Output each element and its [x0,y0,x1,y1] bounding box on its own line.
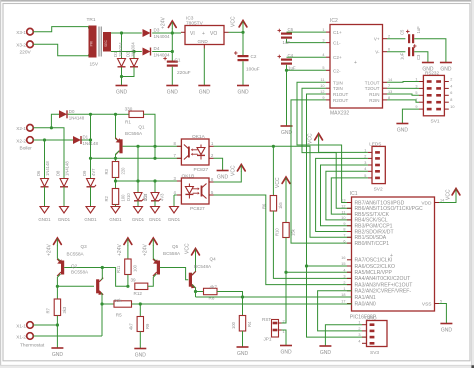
svg-text:1: 1 [322,28,324,32]
svg-text:D6: D6 [36,170,41,176]
svg-text:R10: R10 [274,228,279,236]
wire VSS to GND [439,304,446,324]
svg-text:3: 3 [322,39,324,43]
svg-text:SV1: SV1 [431,119,440,125]
svg-text:GND: GND [52,352,64,358]
svg-text:Q1: Q1 [138,125,145,130]
optocoupler OK1A PC827 [173,134,214,173]
wire SV2 pin2 to RB2 [316,158,368,231]
wire Q5 base to Q4 base [160,268,188,280]
svg-text:1: 1 [358,321,360,325]
ground under C5 [440,63,452,73]
svg-text:VSS: VSS [422,301,432,307]
svg-text:C1-: C1- [333,41,341,46]
svg-text:R5: R5 [116,313,122,318]
svg-text:1N4148: 1N4148 [45,161,50,176]
connector X3-1 [16,28,33,35]
svg-text:X2-1: X2-1 [16,126,26,131]
transistor Q1 BC556A [116,125,145,155]
junction D9 column top [89,113,92,116]
junction zener tap [89,157,92,160]
transistor Q5 BC558A [153,244,181,276]
svg-text:C2: C2 [251,54,257,59]
junction Q2 base node [56,285,59,288]
wire T1IN to RB7 [297,82,352,202]
supply VCC at SV2 [308,133,323,144]
junction on +24V rail (D1 tap) [120,31,123,34]
resistor R5 33k [102,298,132,318]
wire Q2 base [57,285,94,287]
label Thermostat [20,343,45,349]
ground under C3 [422,63,434,73]
ground under R7 [51,348,63,358]
svg-text:GND: GND [116,90,128,96]
capacitor C1 [163,52,190,86]
svg-text:4V7: 4V7 [91,168,96,176]
svg-text:8: 8 [343,228,345,232]
wire divider to OK1B pin3 [116,180,182,182]
svg-text:+: + [202,31,205,37]
svg-text:BC558A: BC558A [71,270,89,275]
wire R9 to GND [139,332,141,349]
svg-text:TR1: TR1 [87,17,96,23]
svg-text:Q5: Q5 [172,244,179,249]
svg-text:5: 5 [322,66,324,70]
wire X1-2 to Q2 emitter [33,335,102,337]
junction R6 tap [272,145,275,148]
ground under SV1 [396,124,408,134]
svg-text:9: 9 [415,105,417,109]
svg-text:GND: GND [320,350,332,356]
svg-text:C5: C5 [400,29,405,35]
supply +24V (top) [161,17,177,29]
svg-text:4V3: 4V3 [160,193,165,201]
wire X2-2 line [33,139,73,141]
wire SV3 pin2 to RA2 [318,291,362,331]
svg-text:2: 2 [343,281,345,285]
svg-text:220: 220 [120,167,125,175]
wire Q4 collector [192,256,196,275]
svg-text:GND1: GND1 [58,217,71,222]
junction R5 left [100,302,103,305]
svg-text:4: 4 [343,268,345,272]
svg-text:BC556A: BC556A [125,131,143,136]
ground GND1 under OK1B pin4 [168,195,181,222]
zener D9 4V7 [82,168,97,222]
supply VCC (top) [231,16,247,32]
svg-text:RB0/INT/CCP1: RB0/INT/CCP1 [355,241,390,247]
svg-text:4k7: 4k7 [129,323,134,330]
zener D11 4V3 [143,181,165,222]
svg-text:JP1: JP1 [264,337,272,342]
diode D3 [143,28,171,40]
svg-text:Q3: Q3 [81,244,88,249]
svg-text:LEDS: LEDS [369,141,381,146]
wire to R3 node [91,157,116,159]
wire X3-2 to TR1 primary bottom [33,44,88,55]
wire R6 to RA4 [273,211,351,278]
svg-text:GND: GND [280,350,292,356]
svg-text:1uF: 1uF [288,66,296,71]
svg-text:GND1: GND1 [168,217,181,222]
supply VCC at VDD [446,189,460,201]
wire to GND below caps [286,70,288,126]
svg-text:IC2: IC2 [330,18,338,24]
wire D3 to +24V node [152,32,181,34]
svg-text:3: 3 [358,333,360,337]
svg-text:3: 3 [364,161,366,165]
ground under OK1A [217,171,229,181]
resistor R1 [116,107,144,125]
wire IC3 VO to VCC [229,31,244,33]
wire D9 column [90,140,92,179]
wire OK1A pin2 to GND [214,158,223,170]
svg-text:1N4004: 1N4004 [154,34,171,39]
wire T1OUT to SV1 pin1 [387,81,419,84]
svg-text:1: 1 [415,77,417,81]
wire R1 to base column [144,114,156,146]
svg-text:8: 8 [388,96,390,100]
wire R2IN to SV1 pin7 [387,100,419,102]
connector SV1 RS232 [415,71,454,125]
svg-text:PC827: PC827 [190,206,205,212]
svg-text:5: 5 [364,174,366,178]
wire OK1B pin5 to RA3 [214,195,352,285]
junction Q2 collector tie [101,266,104,269]
svg-text:1N4004: 1N4004 [154,53,171,58]
supply +24V at Q3 [47,238,62,256]
wire opto pin7 line [116,157,182,159]
junction D9 mid [89,138,92,141]
wire Q3 emitter [57,245,60,261]
svg-text:R8: R8 [209,296,215,301]
svg-text:VCC: VCC [308,133,314,144]
svg-text:4: 4 [322,53,324,57]
svg-text:R2IN: R2IN [369,98,379,103]
junction opto cathode node [153,157,156,160]
wire +24V arrow stem [171,28,173,33]
svg-text:C1: C1 [175,58,181,63]
svg-text:2: 2 [358,327,360,331]
diode D1 (vertical) [113,33,125,67]
junction R4 top [241,295,244,298]
wire T2OUT to SV1 pin3 [387,87,419,89]
wire D0 output [68,113,116,115]
svg-text:VDD: VDD [421,200,432,206]
wire SV2 pin3 to RB3 [321,165,368,226]
svg-text:VI: VI [190,31,195,37]
wire diode returns to GND [122,67,135,85]
svg-text:MAX232: MAX232 [330,111,349,117]
svg-text:GND1: GND1 [84,217,97,222]
junction diode return [120,75,123,78]
diode D6 (clamp) [36,140,51,222]
svg-text:GND1: GND1 [149,217,162,222]
svg-text:+24V: +24V [161,17,167,29]
svg-text:+24V: +24V [143,244,149,256]
svg-text:SV2: SV2 [374,187,383,193]
svg-text:GND: GND [237,90,249,96]
connector X2-2 [16,137,33,144]
wire OK1B pin4 to GND1 [174,194,177,196]
wire R1IN to SV1 pin5 [387,94,419,95]
svg-text:4: 4 [358,339,360,343]
svg-text:D10: D10 [126,193,131,201]
svg-text:1k5: 1k5 [278,202,283,209]
label 220V [20,50,32,56]
svg-text:1N4148: 1N4148 [69,116,85,121]
svg-text:9: 9 [343,222,345,226]
svg-text:4: 4 [450,84,452,88]
diode D0 [59,109,85,121]
svg-text:10: 10 [320,84,324,88]
svg-text:V+: V+ [374,37,380,42]
junction X2-1/D0 [50,126,53,129]
svg-text:GND: GND [199,90,211,96]
svg-text:11: 11 [321,78,325,82]
svg-text:7: 7 [343,234,345,238]
svg-text:2: 2 [364,154,366,158]
wire VCC to SV2 pin1 [319,141,368,153]
ic IC2 MAX232 [320,18,392,117]
resistor R11 100 [116,245,137,275]
capacitor C6 1uF [278,27,327,45]
svg-text:10: 10 [341,216,345,220]
junction R8 tap [194,290,197,293]
wire bus1 to RA1 [196,296,352,298]
svg-text:+24V: +24V [117,244,123,256]
wire base col to opto LED return [154,146,156,158]
svg-text:6: 6 [388,48,390,52]
svg-text:RST: RST [262,317,271,322]
wire X2-1 line [33,128,64,179]
ground under bridge [116,86,128,96]
junction Q1 collector column [114,113,117,116]
svg-text:D8: D8 [56,170,61,176]
wire Q3 collector to R7 [57,274,60,299]
svg-text:VO: VO [210,31,217,37]
svg-text:IC3: IC3 [186,16,194,22]
svg-text:VCC: VCC [231,165,237,176]
svg-text:X3-2: X3-2 [16,43,26,48]
svg-text:8: 8 [450,98,452,102]
junction X1-1 [56,323,59,326]
svg-text:RS232: RS232 [425,71,439,76]
svg-text:C2-: C2- [333,68,341,73]
wire R11 to junction [127,275,129,287]
resistor R3 [104,158,126,177]
svg-text:2: 2 [388,35,390,39]
svg-text:BC548A: BC548A [194,264,212,269]
transistor Q4 BC548A [189,257,216,289]
svg-text:OK1B: OK1B [182,173,195,179]
wire SV2 pin4 to RB4 [326,171,368,220]
wire Q2 collector [101,268,102,281]
wire TR1 sec bottom to D4 [111,51,142,53]
svg-text:3: 3 [415,84,417,88]
svg-text:Q2: Q2 [71,263,78,268]
diode D8 (clamp) [56,161,71,222]
connector SV2 LEDS [364,141,385,192]
resistor R9 4k7 [129,304,150,332]
svg-text:1: 1 [364,148,366,152]
svg-text:GND: GND [198,39,209,44]
jumper JP1 RST [262,317,285,342]
svg-text:T1OUT: T1OUT [365,80,380,85]
supply +24V at R11 [117,238,132,256]
svg-text:GND: GND [440,67,452,73]
svg-text:IC1: IC1 [350,191,358,197]
svg-text:39: 39 [131,277,137,282]
svg-text:5: 5 [415,91,417,95]
junction MCLR [284,271,287,274]
capacitor C5 1uF [387,26,446,63]
wire Q4 emitter to bus [192,285,196,297]
voltage regulator IC3 7805TV [181,16,229,49]
svg-text:RA0/AN0: RA0/AN0 [355,301,376,307]
wire R12 to Q5 collector [148,274,157,286]
svg-text:R7: R7 [46,307,51,313]
svg-text:100: 100 [133,264,138,272]
junction X2-2/D6 [43,138,46,141]
svg-text:R3: R3 [104,168,109,174]
wire Q1 emitter [116,151,120,159]
wire Q2 emitter to X1-2 [101,293,102,336]
wire VDD to VCC [439,196,456,203]
svg-text:PRI: PRI [90,41,94,47]
svg-text:GND: GND [237,351,249,357]
svg-text:100uF: 100uF [246,67,260,73]
svg-text:D1: D1 [83,135,89,140]
svg-text:33k: 33k [114,298,122,303]
svg-text:11: 11 [342,210,346,214]
svg-text:R11: R11 [116,265,121,273]
zener D10 15V [126,146,148,222]
svg-text:7805TV: 7805TV [186,21,204,27]
svg-text:GND: GND [441,328,453,334]
svg-text:Boiler: Boiler [20,146,33,152]
wire D1b output up [82,114,91,140]
connector X2-1 [16,125,33,132]
supply VCC at R10 [275,177,290,188]
junction C1 tap [171,50,174,53]
svg-text:6: 6 [343,239,345,243]
junction R3 top [114,157,117,160]
svg-text:15: 15 [341,262,345,266]
svg-text:9: 9 [322,96,324,100]
ground GND1 under R2 [109,207,122,223]
ground under JP1 [280,346,292,356]
junction VCC node [241,31,244,34]
svg-text:X3-1: X3-1 [16,30,26,35]
resistor R12 39 [131,277,148,296]
junction C4 ground tap [285,69,288,72]
svg-text:220uF: 220uF [177,70,191,76]
wire T2IN to RB6 [302,88,352,208]
junction R11/R12 [126,285,129,288]
svg-text:D3: D3 [154,28,160,33]
svg-text:GND: GND [135,353,147,359]
svg-text:1uF: 1uF [283,40,291,45]
svg-text:D0: D0 [69,109,75,114]
svg-text:D9: D9 [82,170,87,176]
svg-text:RA7/OSC1/CLKI: RA7/OSC1/CLKI [355,258,393,264]
svg-text:13: 13 [388,90,392,94]
wire VCC to OK1B pin8 [214,172,242,183]
svg-text:13: 13 [341,199,345,203]
supply VCC at OK1B [231,165,246,177]
svg-text:GPIO: GPIO [365,316,377,321]
svg-text:SV3: SV3 [370,350,379,356]
connector X3-2 [16,41,33,48]
wire RA6 tap [307,265,352,267]
junction RA6 tap [305,264,308,267]
junction R9 top [139,302,142,305]
resistor R8 4k7 [196,285,218,301]
svg-text:1N4004: 1N4004 [130,42,135,57]
svg-text:VCC: VCC [446,189,452,200]
diode D4 [143,46,171,58]
svg-text:100: 100 [231,321,236,329]
supply VCC at Q4 [185,243,200,256]
svg-text:12: 12 [341,205,345,209]
junction Q1 base / D10 column [136,145,139,148]
svg-text:D4: D4 [154,46,160,51]
ground under C2 [237,86,249,96]
svg-text:C1+: C1+ [333,30,342,35]
svg-text:1: 1 [283,330,285,334]
ground under SV3 [319,346,331,356]
svg-text:+24V: +24V [47,244,53,256]
svg-text:6: 6 [450,91,452,95]
svg-text:C2+: C2+ [333,55,342,60]
connector SV3 GPIO [358,316,387,356]
wire R1OUT to SV3 pin3 [307,94,367,337]
capacitor C3 1uF [387,44,428,62]
ground under VSS [440,324,452,334]
ground under R9 [134,349,146,359]
svg-text:10: 10 [450,105,454,109]
transistor Q2 BC558A [71,263,103,295]
svg-text:X1-2: X1-2 [16,334,26,339]
svg-text:SEC: SEC [104,39,108,47]
wire R4 to GND [242,331,244,347]
ground under C1 [166,86,178,96]
wire IC3 GND to ground [203,49,205,86]
svg-text:C6: C6 [288,27,294,32]
resistor R10 15k [274,184,295,238]
svg-text:RA5/MCLR/VPP: RA5/MCLR/VPP [355,270,393,276]
svg-text:R1: R1 [125,120,131,125]
svg-text:R12: R12 [134,291,143,296]
svg-text:VCC: VCC [185,243,191,254]
svg-text:BC558A: BC558A [67,251,85,256]
svg-text:GND: GND [397,128,409,134]
wire X3-1 to TR1 primary top [33,27,88,32]
wire R8 to bus1 [217,292,243,298]
svg-text:330: 330 [125,107,133,112]
svg-text:BC558A: BC558A [163,251,181,256]
svg-text:GND1: GND1 [132,217,145,222]
wire Q1 base line [123,145,182,147]
svg-text:+: + [354,60,357,66]
svg-text:RA1/AN1: RA1/AN1 [355,295,376,301]
junction +24V node [171,31,174,34]
wire bus2 to RA0 [132,303,352,306]
svg-text:C3: C3 [416,54,421,60]
wire up to D0 [51,114,59,128]
svg-text:Thermostat: Thermostat [20,343,45,349]
